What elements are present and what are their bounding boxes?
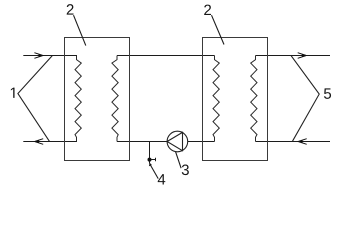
node 4 capped tap (tick) <box>152 158 156 161</box>
coil zigzag, right box left <box>213 56 219 142</box>
node 4 stub from bottom pipe <box>149 142 151 164</box>
coil zigzag, left box left <box>75 56 81 142</box>
pipe bottom header segment pump outlet to box2 <box>188 141 215 143</box>
leader line label 2 right <box>212 15 225 44</box>
pipe bottom header middle segment (to pump inlet) <box>117 141 167 143</box>
pipe top header right segment <box>256 55 331 57</box>
heat exchanger casing 2 (left box) <box>65 38 130 161</box>
duct transition 1 (left, chevron to pipes) <box>18 56 52 142</box>
label 3 <box>182 164 189 175</box>
pipe bottom header left segment <box>23 141 77 143</box>
leader line label 2 left <box>74 15 86 45</box>
pipe top header left segment <box>23 55 77 57</box>
leader line label 4 with arrowhead <box>150 165 158 179</box>
leader line label 3 <box>176 152 182 168</box>
arrow airflow out, top-right (points right) <box>298 53 306 59</box>
coil zigzag, left box right <box>112 56 118 142</box>
coil zigzag, right box right <box>251 56 257 142</box>
label 2 (right box) <box>204 5 211 15</box>
label 2 (left box) <box>67 4 74 14</box>
duct transition 5 (right, chevron to pipes) <box>291 56 319 141</box>
pump 3 impeller triangle <box>167 132 182 150</box>
pipe bottom header right segment <box>256 141 331 143</box>
node 4 junction dot <box>148 158 152 162</box>
arrow airflow in, top-left (points right) <box>34 53 42 59</box>
heat exchanger casing 2 (right box) <box>203 38 268 161</box>
pipe top header middle segment <box>117 55 215 57</box>
pump 3 circle <box>167 131 188 152</box>
label 4 <box>158 174 166 184</box>
arrow airflow out, bottom-left (points left) <box>35 139 43 145</box>
arrow airflow in, bottom-right (points left) <box>299 139 307 145</box>
label 1 <box>11 88 15 98</box>
label 5 <box>324 88 331 98</box>
